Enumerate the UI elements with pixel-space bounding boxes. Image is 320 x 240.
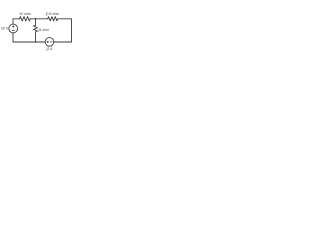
I1 minus sign <box>50 41 52 43</box>
wire top-middle R1 to R2 <box>30 18 47 20</box>
wire middle branch upper stub <box>35 19 37 25</box>
V1 plus sign <box>12 26 14 28</box>
wire bottom-left from source I1 to left corner <box>13 33 45 42</box>
resistor R1 <box>20 17 31 21</box>
voltage source V1 circle <box>9 24 18 33</box>
node B junction dot (bottom of middle branch) <box>35 41 36 42</box>
wire top-right to corner <box>58 18 72 20</box>
svg-text:10 ohm: 10 ohm <box>19 12 31 16</box>
svg-text:20 V: 20 V <box>1 27 9 31</box>
svg-text:j2 A: j2 A <box>46 47 54 51</box>
wire bottom-right to source I1 <box>54 41 72 43</box>
wire top-left from source to R1 <box>13 19 20 24</box>
node A junction dot (top of middle branch) <box>35 18 36 19</box>
svg-text:j0.5 ohm: j0.5 ohm <box>45 12 60 16</box>
current/voltage source I1 circle <box>45 38 54 47</box>
V1 minus sign <box>12 29 14 31</box>
resistor R2 <box>48 17 58 21</box>
I1 plus sign <box>47 41 49 43</box>
wire middle branch lower stub <box>35 32 37 42</box>
svg-text:j5 ohm: j5 ohm <box>38 28 50 32</box>
resistor R3 (vertical) <box>34 25 38 32</box>
wire right vertical <box>71 19 73 42</box>
